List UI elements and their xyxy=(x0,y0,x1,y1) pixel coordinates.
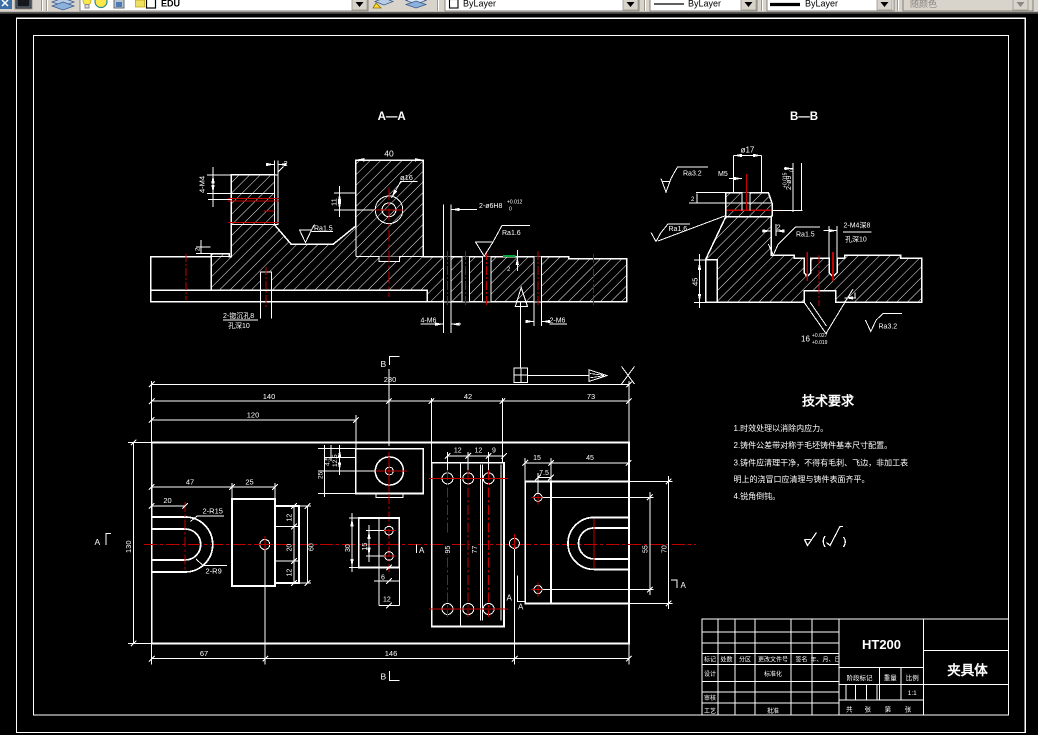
notch in base under central block xyxy=(379,257,399,262)
surface check below 16H7 hole xyxy=(804,289,853,334)
svg-text:比例: 比例 xyxy=(906,673,919,682)
svg-text:标准化: 标准化 xyxy=(764,670,782,678)
svg-text:2-M4深8: 2-M4深8 xyxy=(844,221,871,230)
dim 2 right of boss xyxy=(762,224,783,236)
svg-text:12: 12 xyxy=(287,569,294,577)
svg-text:批准: 批准 xyxy=(767,707,779,715)
surface mark Ra1.5 on pads xyxy=(768,227,819,255)
boss on top xyxy=(726,193,772,217)
svg-text:张: 张 xyxy=(905,705,912,714)
svg-text:0: 0 xyxy=(790,169,796,172)
svg-text:A: A xyxy=(95,537,101,547)
surface mark Ra1.6 left slope xyxy=(651,224,690,242)
svg-text:+0.015: +0.015 xyxy=(783,172,789,188)
svg-text:146: 146 xyxy=(385,649,398,658)
svg-text:A: A xyxy=(419,546,425,555)
svg-text:130: 130 xyxy=(124,540,133,553)
dim 140 42 73 xyxy=(152,400,629,402)
svg-text:审核: 审核 xyxy=(704,694,716,702)
svg-text:70: 70 xyxy=(662,545,669,553)
dim 40 above central block xyxy=(356,159,424,161)
plot icon xyxy=(136,0,145,3)
svg-text:阶段标记: 阶段标记 xyxy=(847,673,874,682)
M5 tapped hole xyxy=(741,193,743,211)
surface mark Ra3.2 bottom right xyxy=(865,314,902,332)
svg-text:设计: 设计 xyxy=(704,670,716,678)
extension lines top xyxy=(152,369,629,462)
small pad dim right of green xyxy=(516,250,518,271)
svg-text:55: 55 xyxy=(643,545,650,553)
svg-text:4.锐角倒钝。: 4.锐角倒钝。 xyxy=(734,491,781,501)
svg-text:9: 9 xyxy=(492,448,496,455)
dim 55 xyxy=(543,492,654,595)
svg-text:25: 25 xyxy=(318,471,325,479)
square marker xyxy=(514,368,528,383)
right U-slot xyxy=(568,517,628,569)
svg-text:1:1: 1:1 xyxy=(908,690,917,697)
svg-text:ø16: ø16 xyxy=(400,173,413,182)
red centerline 16H7 xyxy=(818,255,820,306)
svg-text:4-M4: 4-M4 xyxy=(198,176,207,193)
separator xyxy=(762,0,763,11)
dim 4-M4 left of tower xyxy=(207,167,231,207)
toolbar background xyxy=(0,0,1038,11)
plate outline xyxy=(152,443,629,644)
svg-text:20: 20 xyxy=(163,496,171,505)
hatched body of section B-B xyxy=(706,217,922,303)
svg-text:42: 42 xyxy=(464,392,472,401)
crosshair cursor X xyxy=(622,367,635,385)
dims right block top xyxy=(525,458,628,494)
left foot (unhatched) xyxy=(706,260,718,302)
svg-text:3.铸件应清理干净，不得有毛刺、飞边，非加工表: 3.铸件应清理干净，不得有毛刺、飞边，非加工表 xyxy=(734,458,909,468)
svg-text:25: 25 xyxy=(245,477,253,486)
bottom dimension chain 67 146 xyxy=(152,658,629,660)
red thread line in boss xyxy=(727,209,771,211)
dim 2 at tower top xyxy=(266,161,286,175)
svg-text:47: 47 xyxy=(186,477,194,486)
svg-text:Ra1.5: Ra1.5 xyxy=(796,232,815,239)
svg-text:更改文件号: 更改文件号 xyxy=(758,656,788,664)
separator xyxy=(42,0,48,11)
A label right xyxy=(671,580,677,588)
svg-text:2.铸件公差带对称于毛坯铸件基本尺寸配置。: 2.铸件公差带对称于毛坯铸件基本尺寸配置。 xyxy=(734,440,893,450)
svg-text:重量: 重量 xyxy=(884,674,898,682)
svg-text:16: 16 xyxy=(801,335,810,344)
svg-text:77: 77 xyxy=(472,546,479,554)
svg-text:45: 45 xyxy=(586,455,594,462)
svg-text:280: 280 xyxy=(384,375,397,384)
svg-text:A: A xyxy=(518,603,524,612)
svg-text:7.5: 7.5 xyxy=(539,470,549,477)
partial icon far left xyxy=(0,0,12,9)
dim 60 xyxy=(307,506,309,583)
title block grid xyxy=(702,619,1009,715)
block with hole (left middle) xyxy=(232,499,275,586)
svg-text:45: 45 xyxy=(691,278,700,286)
svg-text:M5: M5 xyxy=(718,171,728,178)
dim 280 xyxy=(152,383,629,385)
dims 47 25 / 20 xyxy=(152,486,275,488)
six holes xyxy=(442,473,494,615)
svg-text:处数: 处数 xyxy=(720,656,732,664)
svg-text:B: B xyxy=(381,359,387,369)
svg-text:12: 12 xyxy=(475,448,483,455)
thin liner plate right of tower xyxy=(275,175,279,225)
svg-text:ø17: ø17 xyxy=(741,146,755,155)
dim 130 left xyxy=(133,443,135,644)
plot style combo (disabled) xyxy=(903,0,1033,11)
base plate left end (unhatched) xyxy=(151,257,211,291)
svg-text:Ra1.6: Ra1.6 xyxy=(502,230,521,237)
svg-text:11: 11 xyxy=(330,198,339,206)
svg-text:B: B xyxy=(381,672,387,682)
svg-text:2-锪沉孔8: 2-锪沉孔8 xyxy=(223,311,254,320)
green highlight segment xyxy=(503,255,515,257)
svg-text:15: 15 xyxy=(533,455,541,462)
svg-text:Ra1.6: Ra1.6 xyxy=(669,226,688,233)
stepped gauge block xyxy=(275,506,299,583)
separator xyxy=(438,0,439,11)
svg-text:A—A: A—A xyxy=(378,111,406,123)
svg-text:+0.012: +0.012 xyxy=(507,200,523,206)
B-B cut centerline through boss xyxy=(388,494,390,572)
svg-text:20: 20 xyxy=(287,544,294,552)
svg-text:120: 120 xyxy=(247,410,260,419)
hole on centerline right of slots xyxy=(509,538,519,548)
button: make layer xyxy=(373,0,393,8)
separator xyxy=(645,0,646,11)
rotated dims 95 / 77 xyxy=(443,533,451,554)
finish marks bottom xyxy=(805,527,846,548)
arrow to the right of square xyxy=(528,375,589,377)
svg-text:73: 73 xyxy=(587,392,595,401)
A-A cut jog mark mid xyxy=(416,545,418,554)
svg-text:分区: 分区 xyxy=(739,656,751,664)
svg-text:标记: 标记 xyxy=(704,656,716,664)
svg-text:明上的浇冒口应清理与铸件表面齐平。: 明上的浇冒口应清理与铸件表面齐平。 xyxy=(734,474,870,484)
svg-text:2-R9: 2-R9 xyxy=(206,567,222,576)
title block texts xyxy=(704,656,919,716)
small dim 2 at boss shoulder xyxy=(689,202,726,204)
svg-text:+0.027: +0.027 xyxy=(812,333,828,339)
svg-text:12: 12 xyxy=(454,448,462,455)
surface mark Ra3.2 top left xyxy=(696,192,726,194)
svg-text:孔深10: 孔深10 xyxy=(228,321,250,330)
two holes right block xyxy=(534,493,542,501)
svg-text:0: 0 xyxy=(509,207,512,213)
dim ø17 xyxy=(734,156,762,193)
counterbore hole in base left xyxy=(261,272,272,290)
surface mark Ra1.6 on base top xyxy=(475,226,530,257)
dims 12/20/12 xyxy=(293,506,295,583)
svg-text:140: 140 xyxy=(263,392,276,401)
small chamfer arrow at notch xyxy=(845,297,856,299)
section arrow B below base xyxy=(515,288,527,307)
surface mark Ra1.5 on groove xyxy=(300,225,334,243)
hole slots (unhatched) in base xyxy=(444,257,542,302)
color swatch xyxy=(147,0,156,8)
screen/display icon xyxy=(15,0,32,9)
svg-text:ByLayer: ByLayer xyxy=(805,0,838,9)
main horizontal centerline xyxy=(144,544,696,546)
svg-text:年、月、日: 年、月、日 xyxy=(810,656,840,664)
svg-text:ByLayer: ByLayer xyxy=(688,0,721,9)
dim 70 xyxy=(630,476,673,609)
svg-text:EDU: EDU xyxy=(161,0,180,9)
small step on base left xyxy=(196,240,211,254)
svg-text:Ra1.5: Ra1.5 xyxy=(314,226,333,233)
left U-slot xyxy=(152,517,213,572)
color combo xyxy=(445,0,639,11)
small block with two holes xyxy=(359,518,400,567)
svg-text:2: 2 xyxy=(777,223,781,232)
red thread lines in tower xyxy=(228,198,279,222)
svg-text:12: 12 xyxy=(287,514,294,522)
dim 45 left xyxy=(694,254,706,308)
sun icon xyxy=(95,0,107,8)
white hole walls in base xyxy=(444,205,542,302)
svg-text:Ra3.2: Ra3.2 xyxy=(879,324,898,331)
central boss block with big circle xyxy=(356,449,424,494)
svg-text:2: 2 xyxy=(284,159,288,168)
hole at (265,544.5) xyxy=(260,540,270,550)
lineweight combo xyxy=(767,0,894,11)
red centerlines M4 holes xyxy=(806,252,808,281)
svg-text:40: 40 xyxy=(384,149,394,159)
dims 30 / 15 xyxy=(349,513,384,572)
right block xyxy=(525,481,628,603)
dim 11 left of block xyxy=(334,186,374,217)
svg-text:12.5: 12.5 xyxy=(332,454,339,467)
base top line under tower/block xyxy=(211,256,231,258)
svg-text:4-M6: 4-M6 xyxy=(421,318,437,325)
separator xyxy=(898,0,899,11)
label 2-ø6H8 xyxy=(451,209,477,211)
dims left of boss block xyxy=(318,445,376,497)
lock icon xyxy=(114,0,124,8)
hatched body of section A-A xyxy=(211,160,627,302)
svg-text:孔深10: 孔深10 xyxy=(845,234,867,243)
svg-text:技术要求: 技术要求 xyxy=(802,394,855,409)
svg-text:A: A xyxy=(507,594,513,603)
svg-text:67: 67 xyxy=(200,649,208,658)
svg-text:夹具体: 夹具体 xyxy=(947,662,988,678)
svg-text:6: 6 xyxy=(381,575,385,582)
svg-text:2-M6: 2-M6 xyxy=(550,318,566,325)
layer combo box xyxy=(80,0,368,11)
svg-text:+0.019: +0.019 xyxy=(812,340,828,346)
svg-text:B—B: B—B xyxy=(790,111,818,123)
button: layers 2 xyxy=(406,0,426,8)
svg-text:Ra3.2: Ra3.2 xyxy=(683,171,702,178)
label ø16 xyxy=(392,182,418,198)
label 2-ø9 rotated xyxy=(772,163,803,212)
svg-text:工艺: 工艺 xyxy=(704,707,716,715)
base plate bottom strip xyxy=(151,290,427,302)
svg-text:张: 张 xyxy=(865,705,872,714)
layers button icon xyxy=(52,0,74,10)
tower internal lines xyxy=(231,192,274,194)
svg-text:12: 12 xyxy=(383,597,391,604)
linetype combo xyxy=(650,0,757,11)
svg-text:2-R15: 2-R15 xyxy=(203,507,223,516)
A jog bottom xyxy=(517,576,526,602)
svg-text:60: 60 xyxy=(309,543,316,551)
svg-text:ByLayer: ByLayer xyxy=(463,0,496,9)
svg-text:随颜色: 随颜色 xyxy=(910,0,937,9)
dropdown button xyxy=(352,0,367,10)
svg-text:15: 15 xyxy=(362,543,369,551)
svg-text:第: 第 xyxy=(885,705,892,714)
bulb icon xyxy=(83,0,91,5)
svg-text:共: 共 xyxy=(846,705,853,714)
dim 120 xyxy=(152,419,356,421)
slotted block (middle) xyxy=(432,463,504,627)
dims 12 12 9 xyxy=(448,455,505,457)
svg-text:30: 30 xyxy=(345,544,352,552)
svg-text:签名: 签名 xyxy=(795,656,807,664)
hole ø16 in central block xyxy=(375,196,403,224)
svg-text:1.时效处理以消除内应力。: 1.时效处理以消除内应力。 xyxy=(734,423,829,433)
svg-text:HT200: HT200 xyxy=(862,637,901,652)
svg-text:95: 95 xyxy=(445,546,452,554)
svg-text:4.5: 4.5 xyxy=(325,457,332,466)
red hole centerlines in base xyxy=(447,251,593,307)
svg-text:A: A xyxy=(681,581,687,590)
svg-text:2-ø6H8: 2-ø6H8 xyxy=(479,203,502,210)
